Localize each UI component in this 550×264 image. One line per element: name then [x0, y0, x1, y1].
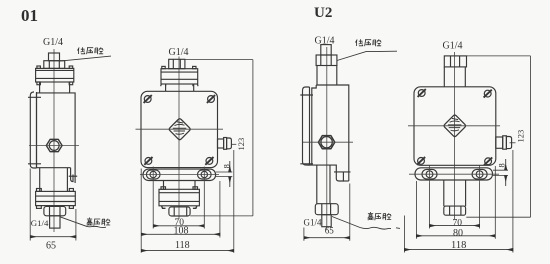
label 高压腔 fig1	[87, 218, 110, 226]
dim 80 fig4 ext	[416, 166, 495, 239]
压	[94, 219, 100, 226]
dim 118 fig4 line	[404, 249, 513, 251]
top threaded hex fig2	[169, 59, 185, 68]
dim 65 fig3 line	[304, 237, 350, 239]
top hex fig4	[444, 56, 466, 67]
gland centerline tick fig4	[510, 142, 516, 144]
svg-text:G1/4: G1/4	[43, 37, 63, 48]
lower neck fig3	[317, 165, 330, 204]
label 低压腔 fig3	[356, 39, 382, 46]
corner screw TR fig4	[484, 90, 492, 98]
label 低压腔 fig1	[78, 47, 104, 54]
bottom right hook fig1	[71, 168, 73, 182]
nameplate marks fig4	[448, 118, 462, 130]
horiz centerline through diamond fig2	[136, 128, 224, 130]
bottom hex fig4	[444, 206, 466, 215]
svg-text:01: 01	[21, 6, 38, 25]
corner screw BL fig2	[144, 157, 152, 165]
mounting bracket fig2	[143, 169, 216, 180]
body fig1	[37, 93, 76, 183]
lower neck fig4	[444, 180, 466, 206]
hex plug circle fig1	[49, 141, 59, 151]
dim 65 fig1 line	[30, 236, 76, 238]
dim 65 fig3 ext	[304, 184, 350, 241]
svg-text:U2: U2	[314, 5, 332, 21]
svg-text:80: 80	[453, 228, 463, 239]
horiz centerline through diamond fig4	[408, 125, 500, 127]
cable gland fig2	[218, 139, 224, 148]
dim 118 fig2 ext	[233, 150, 235, 253]
dim 8 fig4	[493, 170, 508, 175]
bracket holes centerline fig2	[140, 174, 219, 176]
dim 118 fig4 ext	[404, 150, 513, 253]
svg-text:8: 8	[496, 163, 506, 167]
top flange fig1	[36, 68, 74, 82]
dim 70 fig4 line	[430, 225, 480, 227]
dim 65 fig1 extension lines	[30, 169, 76, 241]
cable gland fig4	[496, 137, 503, 148]
mounting bracket edge fig3	[303, 87, 310, 165]
dim 123 fig2 line	[190, 60, 253, 216]
bracket ticks fig3	[300, 95, 313, 164]
body bottom and hook fig3	[308, 165, 344, 181]
svg-text:G1/4: G1/4	[443, 41, 463, 52]
dim 80 fig4 line	[416, 235, 495, 237]
top threaded stub fig1	[49, 53, 60, 61]
svg-text:G1/4: G1/4	[304, 218, 323, 228]
dim 108 fig2 ext	[141, 169, 220, 253]
body fig2	[141, 91, 218, 167]
dim 118 fig2 line	[141, 250, 234, 252]
bottom threaded stub fig3	[322, 215, 331, 227]
nameplate diamond fig4	[444, 115, 466, 137]
dim 108 fig2 line	[141, 233, 220, 235]
flange bolts bottom fig2	[161, 187, 166, 190]
top hex nut fig1	[44, 61, 65, 69]
upper neck fig3	[317, 66, 337, 86]
gland centerline tick fig2	[232, 143, 236, 145]
upper neck fig4	[444, 67, 465, 87]
bottom flange fig2	[159, 189, 199, 206]
lower neck fig1	[40, 168, 68, 192]
centerline vertical fig4	[453, 52, 455, 219]
lower neck fig2	[164, 181, 196, 190]
corner screw TR fig2	[207, 95, 215, 103]
bracket hole left fig2	[146, 170, 160, 179]
bottom hex fig2	[169, 207, 190, 216]
bracket hole left fig4	[422, 169, 437, 179]
svg-text:65: 65	[46, 241, 56, 252]
leader low pressure fig3	[337, 51, 397, 60]
svg-text:70: 70	[453, 218, 463, 228]
bottom flange fig1	[36, 191, 76, 205]
svg-text:123: 123	[236, 138, 246, 151]
bottom hex nut fig3	[315, 204, 338, 215]
label 高压腔 fig3	[368, 212, 391, 220]
svg-text:G1/4: G1/4	[31, 218, 49, 228]
dim 123 fig4 line	[466, 56, 530, 217]
压	[87, 48, 94, 55]
centerline vertical fig1	[53, 49, 55, 232]
corner screw BL fig4	[417, 157, 425, 165]
hex plug centerline fig3	[303, 141, 353, 143]
dim 123 extension top fig2	[185, 59, 253, 61]
svg-text:8: 8	[221, 164, 231, 168]
leader high pressure fig3	[332, 217, 400, 230]
flange bolts top fig1	[37, 66, 41, 68]
nameplate marks fig2	[173, 122, 187, 134]
corner screw BR fig2	[205, 157, 213, 165]
corner screw BR fig4	[484, 157, 492, 165]
svg-text:118: 118	[451, 240, 466, 251]
top hex nut fig3	[316, 55, 337, 66]
svg-text:118: 118	[175, 240, 190, 251]
bracket ticks fig1	[28, 97, 41, 164]
body fig3	[312, 85, 349, 181]
bracket hole right fig4	[472, 169, 487, 179]
dim 70 fig2 line	[153, 225, 204, 227]
leader low-pressure label fig1	[59, 56, 111, 61]
centerline vertical fig3	[326, 47, 328, 230]
bracket holes centerline fig4	[409, 173, 499, 175]
corner screw TL fig2	[144, 95, 152, 103]
flange bolts fig2	[162, 66, 165, 68]
upper neck fig1	[40, 82, 70, 93]
mounting bracket edge fig1	[30, 92, 36, 168]
svg-text:65: 65	[325, 225, 335, 235]
centerline vertical fig2	[178, 57, 180, 220]
flange bolts bottom fig1	[37, 189, 42, 192]
hex plug centerline fig1	[29, 145, 79, 147]
dim 123 ext top fig4	[467, 55, 531, 57]
bracket hole right fig2	[198, 170, 212, 179]
腔	[95, 47, 103, 54]
hex plug circle fig3	[321, 137, 332, 148]
top threaded stub fig3	[321, 45, 331, 55]
腔	[102, 219, 110, 226]
bottom threaded stub fig1	[50, 216, 60, 228]
hex plug fig3	[318, 136, 334, 149]
dim 70 fig2 ext	[153, 183, 204, 229]
高	[87, 218, 92, 226]
dim 8 fig2	[216, 172, 232, 177]
upper neck fig2	[166, 84, 194, 91]
high pressure leader fig1	[60, 217, 106, 228]
body fig4	[414, 87, 496, 166]
hex plug fig1	[46, 139, 62, 151]
svg-text:108: 108	[174, 226, 189, 237]
top flange fig2	[161, 69, 198, 84]
svg-text:123: 123	[515, 130, 525, 143]
nameplate diamond fig2	[169, 119, 190, 140]
corner screw TL fig4	[418, 89, 426, 97]
bottom hex nut fig1	[44, 206, 66, 215]
svg-text:G1/4: G1/4	[169, 47, 189, 58]
dim 70 fig4 ext	[430, 183, 480, 229]
低	[78, 47, 86, 54]
mounting bracket fig4	[415, 168, 493, 180]
